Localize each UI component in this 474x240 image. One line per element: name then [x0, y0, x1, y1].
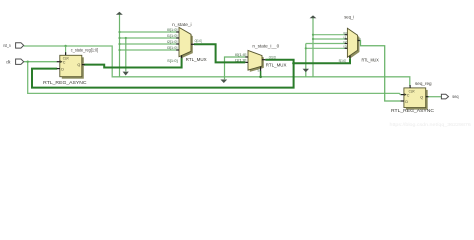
svg-text:n_state_i: n_state_i — [172, 22, 191, 27]
svg-text:D: D — [405, 100, 408, 104]
reg1 clock triangle — [60, 60, 62, 63]
wire mux2 S to c_state tap — [260, 71, 262, 77]
bus to mux3 S — [294, 55, 350, 63]
wire tap from I1 net down to state bus — [125, 38, 127, 71]
register c_state_reg shadow — [62, 57, 84, 78]
register seq_reg shadow — [406, 90, 428, 110]
bus mux1 O to mux2 I1 — [194, 44, 245, 62]
svg-text:seq_reg: seq_reg — [415, 81, 432, 86]
arrow up top of mux1 feeder — [116, 12, 123, 15]
mux3 seq_i shadow — [349, 30, 359, 59]
junction mux3 feeder I0 — [312, 34, 314, 36]
wire mux1 input I1 — [120, 37, 177, 39]
svg-text:I2[1:0]: I2[1:0] — [167, 40, 178, 44]
reg1 D pin stub — [57, 68, 60, 70]
mux1 I1 stub — [176, 37, 179, 39]
svg-text:S[1:0]: S[1:0] — [339, 59, 346, 63]
svg-text:Q: Q — [420, 95, 423, 99]
mux3 body — [347, 28, 357, 57]
svg-text:seq: seq — [452, 94, 459, 99]
arrow down tap into c_state bus at x224 — [220, 80, 227, 84]
wire mux3 input I1 — [313, 38, 345, 40]
wire mux1 input I2 — [120, 43, 177, 45]
svg-text:D: D — [61, 67, 64, 71]
svg-text:S[1:0]: S[1:0] — [167, 59, 178, 63]
wire clk branch to seq_reg C — [28, 62, 402, 95]
junction mux2 out to mux3 S bus — [292, 62, 295, 65]
svg-text:O[1:0]: O[1:0] — [269, 55, 276, 59]
svg-text:I3: I3 — [343, 45, 347, 49]
wire mux3 input I2 — [306, 43, 345, 45]
input port rst_n — [16, 43, 24, 48]
reg2 D pin stub — [401, 100, 404, 102]
mux3 I3 stub — [345, 47, 348, 49]
svg-text:I1: I1 — [343, 35, 347, 39]
register seq_reg body — [404, 88, 426, 108]
mux2 I0 stub — [245, 56, 248, 58]
junction clk branch — [27, 61, 29, 63]
junction tap on I1 net — [125, 37, 127, 39]
svg-text:O[1:0]: O[1:0] — [195, 39, 202, 43]
reg2 clock triangle — [404, 93, 406, 96]
mux2 S stub — [260, 67, 262, 71]
svg-text:I1[1:0]: I1[1:0] — [167, 34, 178, 38]
svg-text:c_state_reg[1:0]: c_state_reg[1:0] — [71, 48, 98, 53]
reg1 C pin stub — [57, 61, 60, 63]
mux1 n_state_i shadow — [181, 29, 193, 58]
mux3 I1 stub — [345, 38, 348, 40]
wire mux3 input I0 — [313, 34, 345, 36]
mux2 I1 stub — [245, 61, 248, 63]
arrow down tap at x305.8 — [303, 69, 309, 73]
svg-text:I0[1:0]: I0[1:0] — [167, 28, 178, 32]
svg-text:O: O — [359, 37, 362, 41]
svg-text:C: C — [407, 93, 410, 97]
svg-text:Q: Q — [77, 63, 80, 67]
mux1 I3 stub — [176, 49, 179, 51]
svg-text:https://blog.csdn.net/qq_36229: https://blog.csdn.net/qq_36229876 — [390, 122, 472, 128]
wire mux1 input I0 — [120, 31, 177, 33]
wire clk to c_state_reg C — [24, 61, 57, 63]
mux1 O stub — [191, 43, 194, 45]
reg2 Q pin stub — [426, 96, 429, 98]
svg-text:RTL_REG_ASYNC: RTL_REG_ASYNC — [43, 80, 87, 85]
svg-text:rst_n: rst_n — [3, 43, 11, 48]
svg-text:I3[1:0]: I3[1:0] — [167, 46, 178, 50]
mux2 body — [248, 50, 262, 70]
wire mux3 input I3 — [306, 47, 345, 49]
svg-text:seq_i: seq_i — [344, 14, 354, 19]
arrow up top of mux3 feeder — [310, 15, 317, 18]
junction feeder I3 — [118, 49, 120, 51]
mux3 S stub — [349, 56, 351, 58]
mux1 I2 stub — [176, 43, 179, 45]
reg2 CLR pin stub — [409, 85, 411, 88]
wire rst_n net — [24, 46, 410, 86]
wire vertical feeder for mux1 inputs — [119, 14, 121, 77]
wire mux2 input I0 net — [225, 57, 246, 79]
wire vertical feeder for mux3 inputs I2 I3 — [305, 44, 307, 77]
reg2 C pin stub — [401, 94, 404, 96]
svg-text:clk: clk — [6, 59, 11, 64]
junction mux3 feeder I3 — [305, 47, 307, 49]
mux1 I0 stub — [176, 31, 179, 33]
svg-text:RTL_MUX: RTL_MUX — [186, 57, 207, 62]
mux1 S stub — [181, 55, 183, 58]
reg1 CLR pin stub — [65, 46, 67, 55]
svg-text:n_state_i__0: n_state_i__0 — [252, 44, 280, 49]
bus c_state from reg1 Q to mux1 S — [84, 56, 182, 68]
junction feeder I1 — [118, 37, 120, 39]
wire mux3 output seq_i to seq_reg D — [360, 41, 401, 102]
mux3 I2 stub — [345, 43, 348, 45]
svg-text:I1[1:0]: I1[1:0] — [235, 59, 247, 63]
bus n_state feedback from mux2 O to reg1 D — [32, 60, 294, 88]
junction rst at reg1 CLR — [64, 45, 66, 47]
junction feeder I0 — [118, 31, 120, 33]
output port seq — [441, 94, 448, 99]
wire vertical feeder for mux3 inputs I0 I1 — [312, 18, 314, 77]
svg-text:RTL_REG_ASYNC: RTL_REG_ASYNC — [391, 108, 435, 113]
input port clk — [16, 59, 24, 64]
svg-text:RTL_MUX: RTL_MUX — [362, 58, 379, 63]
arrow down tap into c_state bus at x125.8 — [123, 72, 129, 76]
mux2 n_state_i__0 shadow — [250, 52, 264, 72]
wire mux1 input I3 — [120, 49, 177, 51]
register c_state_reg body — [60, 55, 82, 76]
reg1 Q pin stub — [82, 64, 85, 66]
mux3 I0 stub — [345, 34, 348, 36]
mux3 O stub — [358, 40, 360, 42]
svg-text:C: C — [63, 61, 66, 65]
mux1 body — [179, 27, 191, 56]
svg-text:CLR: CLR — [409, 90, 415, 94]
mux2 O stub — [262, 59, 265, 61]
junction mux3 feeder I1 — [312, 38, 314, 40]
junction feeder I2 — [118, 43, 120, 45]
junction mux2 S on c_state bus — [259, 76, 262, 79]
svg-text:I0[1:0]: I0[1:0] — [235, 53, 247, 57]
svg-text:RTL_MUX: RTL_MUX — [266, 62, 287, 67]
wire seq_reg Q to seq port — [428, 96, 442, 98]
svg-text:I2: I2 — [343, 40, 347, 44]
